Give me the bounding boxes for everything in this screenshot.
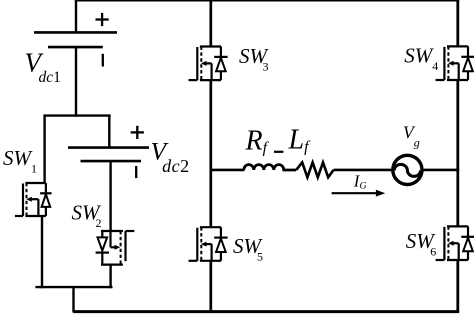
wire center drop to bottom rail (72, 287, 74, 312)
wire SW1 source (41, 216, 43, 288)
wire zigzag to AC source (334, 169, 393, 172)
transistor SW3 (189, 47, 228, 81)
wire right bus middle segment (456, 80, 459, 226)
AC source Vg circle (393, 155, 422, 184)
svg-text:SW5: SW5 (233, 234, 264, 264)
wire Vdc1 top lead (75, 0, 77, 32)
dash between Rf and Lf (274, 151, 283, 153)
battery Vdc1 (34, 32, 117, 47)
minus mark of Vdc2 (135, 166, 137, 178)
plus sign of Vdc1 (96, 13, 109, 26)
wire SW1-SW2 source link (35, 286, 112, 288)
wire middle bus lower segment (209, 261, 212, 313)
svg-text:Rf: Rf (245, 126, 270, 157)
wire top rail (75, 0, 459, 2)
svg-text:SW1: SW1 (3, 146, 37, 176)
svg-text:IG: IG (353, 171, 367, 191)
wire middle bus upper segment (209, 0, 212, 47)
inductor Lf (zigzag element) (296, 162, 333, 177)
transistor SW6 (436, 226, 474, 260)
svg-text:SW2: SW2 (72, 201, 103, 231)
transistor SW5 (189, 227, 228, 261)
svg-text:SW3: SW3 (239, 44, 270, 74)
wire AC source to right bus (424, 169, 460, 172)
resistor Rf (coil-style element) (244, 165, 296, 170)
wire junction node horizontal (44, 114, 111, 116)
svg-text:SW6: SW6 (406, 229, 437, 259)
svg-text:Vdc1: Vdc1 (25, 48, 61, 87)
minus mark of Vdc1 (102, 54, 104, 67)
wire right bus upper segment (456, 0, 459, 46)
svg-text:Vdc2: Vdc2 (151, 137, 190, 177)
svg-text:Vg: Vg (403, 123, 420, 150)
wire bottom rail (74, 310, 460, 313)
wire SW1 drain (43, 115, 45, 184)
plus sign of Vdc2 (131, 126, 144, 139)
battery Vdc2 (68, 148, 149, 162)
wire Vdc2 top lead (108, 115, 110, 149)
transistor SW4 (436, 46, 474, 80)
wire filter branch from middle bus (211, 169, 245, 172)
wire Vdc1 bottom lead (75, 47, 77, 117)
wire right bus lower segment (456, 260, 459, 313)
svg-text:Lf: Lf (288, 125, 312, 156)
transistor SW2 (mirrored: gate right, diode left pointing down) (96, 231, 135, 265)
current arrow IG (332, 190, 386, 197)
wire middle bus middle segment (209, 80, 212, 227)
transistor SW1 (drain enters at right corner above diode) (15, 183, 52, 216)
AC source sine wave (394, 164, 420, 176)
wire Vdc2 bottom lead (109, 161, 111, 231)
svg-text:SW4: SW4 (404, 44, 438, 74)
wire SW2 source (109, 265, 111, 289)
